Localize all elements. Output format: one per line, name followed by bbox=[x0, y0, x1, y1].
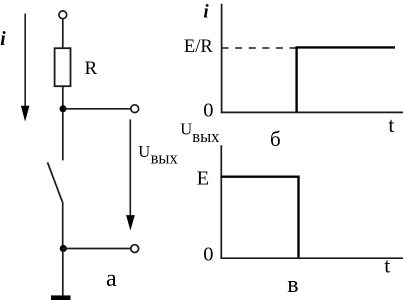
wire: switch to lower node bbox=[62, 202, 64, 249]
current arrow i (left) bbox=[24, 14, 26, 108]
lower output terminal bbox=[131, 245, 139, 253]
svg-text:U: U bbox=[180, 119, 192, 138]
arrow Uout (output voltage) bbox=[129, 119, 131, 216]
arrowhead of current arrow i bbox=[21, 106, 30, 122]
wire: lower node to lower output terminal bbox=[63, 248, 131, 250]
arrowhead of Uout arrow bbox=[126, 215, 135, 231]
svg-text:в: в bbox=[287, 272, 298, 298]
node junction upper bbox=[60, 105, 67, 112]
svg-text:E/R: E/R bbox=[184, 37, 213, 57]
svg-text:t: t bbox=[388, 113, 394, 137]
upper output terminal bbox=[131, 105, 139, 113]
svg-text:U: U bbox=[138, 142, 150, 161]
wire: resistor to switch (through node) bbox=[62, 86, 64, 160]
svg-text:R: R bbox=[85, 58, 98, 79]
axis Y (graph v) bbox=[220, 145, 222, 259]
wire: top terminal to resistor bbox=[62, 19, 64, 48]
svg-text:i: i bbox=[0, 29, 6, 50]
axis X (graph v) bbox=[221, 257, 403, 259]
svg-text:i: i bbox=[203, 1, 209, 22]
svg-text:б: б bbox=[270, 127, 281, 151]
axis X (graph b) bbox=[221, 111, 403, 113]
svg-text:t: t bbox=[384, 254, 390, 278]
top terminal (input) bbox=[59, 11, 67, 19]
dashed level line E/R bbox=[222, 47, 297, 49]
svg-text:0: 0 bbox=[203, 100, 213, 122]
svg-text:вых: вых bbox=[192, 127, 220, 146]
pulse curve (graph v) bbox=[220, 177, 298, 258]
wire: lower node to ground bbox=[62, 249, 64, 296]
ground bbox=[51, 295, 71, 300]
svg-text:0: 0 bbox=[203, 244, 213, 266]
resistor R bbox=[55, 48, 71, 86]
svg-text:а: а bbox=[106, 266, 117, 292]
step response curve (graph b) bbox=[297, 47, 395, 112]
svg-text:вых: вых bbox=[151, 148, 179, 167]
wire: upper node to output terminal bbox=[63, 108, 131, 110]
axis Y (graph b) bbox=[221, 4, 223, 114]
switch S (open blade) bbox=[48, 162, 63, 202]
node junction lower bbox=[60, 245, 67, 252]
svg-text:E: E bbox=[197, 168, 210, 190]
